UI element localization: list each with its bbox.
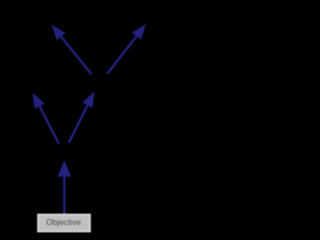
wire E5 upper-right branch arrow [107, 24, 146, 74]
wire E3 lower-right branch arrow toward upper junction [69, 92, 95, 143]
wire E4 upper-left branch arrow [52, 25, 92, 75]
wire E1 vertical arrow from Objective box up to lower junction [58, 160, 72, 214]
wire E2 lower-left branch arrow [33, 93, 60, 145]
svg-text:Objective: Objective [46, 217, 81, 227]
node Objective box [38, 215, 90, 232]
